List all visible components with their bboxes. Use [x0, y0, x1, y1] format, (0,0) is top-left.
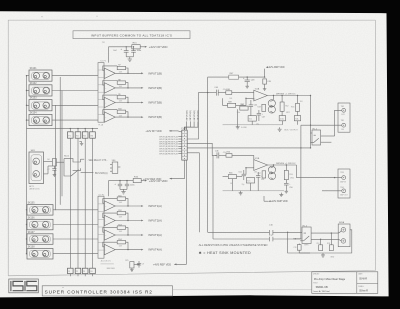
label INPUT2(A) — [141, 220, 143, 222]
svg-text:05-Iss-R: 05-Iss-R — [359, 291, 368, 293]
wire PL1B pin stub 1 — [178, 136, 182, 138]
wire long vertical C — [55, 105, 57, 210]
svg-text:C18: C18 — [316, 243, 319, 245]
component R24 (bottom row) — [90, 268, 96, 273]
wire R24 bottom stub — [92, 274, 94, 277]
svg-text:+: + — [105, 117, 106, 119]
svg-text:+4.5V REF VDD: +4.5V REF VDD — [143, 178, 161, 181]
resistor R48 (bias pair) — [262, 104, 266, 111]
terminal TB1 — [342, 123, 346, 127]
label INPUT3(B) — [141, 102, 143, 104]
wire top distribution rail — [208, 76, 265, 78]
svg-text:+4V5 REF VDD: +4V5 REF VDD — [153, 262, 171, 266]
wire R21 bottom stub — [69, 274, 71, 277]
wire RL1 contact A — [321, 135, 335, 137]
ground (module B right) — [279, 193, 283, 197]
svg-text:INPUT4(B): INPUT4(B) — [148, 115, 162, 119]
svg-text:R4: R4 — [47, 159, 49, 161]
wire R23 bottom stub — [84, 274, 86, 277]
svg-text:IC5B: IC5B — [255, 158, 260, 160]
wire R1 top stub — [77, 129, 79, 132]
svg-text:R10: R10 — [118, 109, 121, 111]
title strip — [42, 286, 172, 296]
wire output lower 2 — [115, 220, 141, 222]
svg-text:1K0: 1K0 — [300, 101, 303, 103]
socket SK107 L — [32, 236, 38, 242]
transistor Q2 — [268, 106, 275, 113]
wire feedback loop 2 — [103, 81, 128, 88]
socket SK102 R — [43, 87, 49, 93]
socket SK101 L — [33, 73, 39, 79]
svg-text:100K: 100K — [119, 246, 123, 248]
capacitor C49 — [263, 79, 267, 84]
svg-text:IC5A: IC5A — [255, 87, 260, 90]
wire lower cap join — [120, 188, 127, 190]
op-amp IC4a — [104, 201, 115, 211]
wire output lower 3 — [115, 234, 141, 236]
wire +22V rail (lower buffers) — [109, 180, 134, 182]
socket SK103 R — [43, 102, 49, 108]
svg-text:100K: 100K — [119, 202, 123, 204]
resistor R54 — [226, 154, 232, 158]
svg-text:E-GND: E-GND — [241, 127, 247, 129]
svg-text:C44: C44 — [214, 87, 217, 89]
wire SK103 to buffer bus — [52, 104, 98, 106]
connector SK9A — [338, 224, 350, 247]
wire long vertical A — [59, 77, 61, 205]
component IC5 bias — [248, 116, 256, 121]
svg-text:INPUT1(B): INPUT1(B) — [186, 110, 188, 120]
socket SK9A pin1 — [341, 228, 346, 233]
component R2 (mid row) — [82, 132, 88, 138]
svg-text:R13: R13 — [118, 224, 121, 226]
wire TB4 feed — [322, 190, 342, 192]
wire net 4 drop to PL1B — [185, 121, 198, 130]
svg-text:R58: R58 — [327, 243, 330, 245]
svg-text:22p: 22p — [253, 99, 256, 101]
fuse FS1 — [279, 116, 285, 121]
svg-text:23: 23 — [83, 271, 85, 273]
svg-text:DRN BY: DRN BY — [313, 274, 320, 276]
ground (mid) — [79, 141, 81, 143]
wire R52 top — [281, 96, 283, 103]
capacitor C48 — [246, 77, 248, 80]
svg-text:R49: R49 — [228, 101, 231, 103]
junction RL2 feed — [295, 238, 296, 239]
op-amp IC5A — [254, 90, 267, 101]
wire rail drop to bus — [108, 47, 110, 63]
wire relay control drop RL1 — [310, 96, 312, 148]
socket SK108 R — [43, 251, 49, 257]
svg-text:+22V AMP VDD: +22V AMP VDD — [271, 200, 288, 203]
wire SK104 to buffer bus — [52, 119, 98, 121]
svg-text:INPUT3(B): INPUT3(B) — [148, 101, 162, 105]
capacitor C44 — [215, 90, 217, 96]
component R3 (mid row) — [90, 132, 96, 138]
wire PL1B relay control — [187, 147, 310, 149]
label INPUT3(A) — [141, 234, 143, 236]
svg-text:21: 21 — [68, 271, 70, 273]
page border frame — [8, 20, 375, 276]
svg-text:MATCHED: MATCHED — [107, 267, 116, 270]
wire ref rail — [134, 263, 139, 265]
fuse FS2 — [294, 116, 300, 121]
socket SK104 L — [33, 117, 39, 123]
transistor Q3 — [268, 166, 275, 173]
svg-text:05-W-R: 05-W-R — [359, 279, 367, 281]
svg-text:INPUT3(B): INPUT3(B) — [194, 110, 196, 120]
transistor Q1 — [268, 100, 275, 107]
svg-text:IC1 P2: IC1 P2 — [100, 61, 106, 63]
svg-text:R56: R56 — [289, 174, 292, 176]
wire horizontal bus y128.6 — [27, 128, 99, 130]
wire output 1 — [115, 72, 141, 74]
ground (jack) — [53, 173, 57, 177]
svg-text:→ SEE RELAY CTS ←: → SEE RELAY CTS ← — [86, 159, 110, 162]
svg-text:+: + — [105, 88, 106, 90]
wire feedback loop lower 2 — [103, 213, 128, 220]
capacitor C50 — [285, 180, 287, 184]
resistor network RN1 — [112, 162, 118, 173]
svg-text:R54: R54 — [227, 152, 230, 154]
capacitor C52 — [257, 172, 259, 176]
wire IC5B input jog — [253, 155, 255, 159]
wire lower bias drops — [232, 179, 258, 191]
wire RL2 contact B — [311, 238, 338, 240]
terminal block TB3/TB4 — [338, 169, 350, 198]
connector SK108 — [27, 249, 53, 260]
terminal TB4 — [342, 189, 346, 193]
ground (C50) — [285, 189, 289, 193]
capacitor C18 — [319, 245, 323, 251]
label +22V AMP VDDA — [268, 200, 270, 202]
wire R22 bottom stub — [77, 274, 79, 277]
ground (output) — [321, 253, 325, 257]
resistor R46 — [226, 91, 232, 95]
svg-text:INPUT4(A): INPUT4(A) — [148, 248, 162, 252]
wire R2 vertical run — [84, 138, 86, 268]
socket SK104 R — [43, 117, 49, 123]
wire R49 net — [223, 98, 246, 105]
wire output lower 1 — [115, 205, 141, 207]
wire out line to TB1 — [301, 124, 342, 126]
svg-text:INPUT1(B): INPUT1(B) — [148, 71, 162, 75]
svg-text:Issue A / DB Total: Issue A / DB Total — [313, 290, 330, 293]
wire C49 drop — [264, 84, 266, 87]
svg-text:WPR: WPR — [304, 244, 309, 246]
wire +22V rail (buffers top) — [109, 46, 132, 48]
wire IC5A output — [267, 95, 310, 97]
svg-text:R52: R52 — [285, 105, 288, 107]
svg-text:ALL 10K 1%: ALL 10K 1% — [101, 259, 111, 262]
wire R52-FS1 — [281, 111, 283, 115]
wire R3 top stub — [92, 129, 94, 132]
wire SK104 left pin — [27, 119, 30, 121]
svg-text:100K: 100K — [119, 217, 123, 219]
wire net 2 drop to PL1B — [185, 121, 191, 130]
svg-text:R48: R48 — [257, 107, 260, 109]
resistor R8 (feedback) — [117, 81, 125, 84]
label INPUT4(A) — [141, 249, 143, 251]
svg-text:IC3 P2: IC3 P2 — [98, 194, 104, 196]
label INPUT1(A) — [141, 205, 143, 207]
svg-text:C50: C50 — [289, 187, 292, 189]
svg-text:TB3: TB3 — [340, 172, 343, 174]
wire module left vertical — [207, 77, 209, 232]
connector SK107 — [27, 234, 53, 245]
wire PL1B pin stub 4 — [178, 143, 182, 145]
wire PL1B to bottom bus line — [187, 153, 199, 233]
svg-text:+22V AMP VDD: +22V AMP VDD — [267, 66, 284, 69]
resistor R56 — [284, 170, 288, 179]
svg-text:INPUT2(B): INPUT2(B) — [148, 86, 162, 90]
svg-text:GND: GND — [330, 257, 335, 259]
wire SK103 left pin — [27, 104, 30, 106]
resistor R4 (jack) — [52, 159, 56, 166]
ground (module A left) — [236, 125, 240, 129]
wire XLR feed 2 — [338, 239, 341, 241]
wire R53 stem — [297, 96, 299, 104]
resistor R49 — [228, 103, 236, 107]
op-amp IC5B — [254, 160, 268, 171]
svg-text:BUS / OUTPUT: BUS / OUTPUT — [284, 130, 298, 132]
svg-text:R46: R46 — [226, 89, 229, 91]
svg-text:C9: C9 — [142, 263, 144, 265]
wire PL1B lower drop — [174, 160, 186, 264]
connector PL1A bus — [98, 63, 104, 123]
wire C18 stem — [320, 239, 322, 245]
svg-text:INPUT3(A): INPUT3(A) — [148, 233, 162, 237]
svg-text:INPUT4(B) FROM PL2B: INPUT4(B) FROM PL2B — [159, 153, 178, 155]
svg-text:+: + — [105, 206, 106, 208]
wire bus line 1 — [208, 231, 270, 233]
relay RL1 — [312, 130, 321, 145]
wire F1 top stub — [69, 129, 71, 132]
wire cap join — [126, 56, 133, 58]
connector SK9 (mon out) — [29, 152, 44, 184]
wire SK9 out A — [44, 160, 53, 162]
svg-text:R57: R57 — [258, 173, 261, 175]
svg-text:C19: C19 — [293, 247, 296, 249]
connector SK103 — [29, 100, 52, 111]
svg-text:SCALE: SCALE — [358, 285, 364, 288]
scan noise overlay — [0, 0, 1, 1]
svg-text:+: + — [105, 235, 106, 237]
wire XLR feed 1 — [338, 231, 341, 233]
wire F1 vertical run — [69, 138, 71, 268]
svg-text:DRIVES +/- 18V DC: DRIVES +/- 18V DC — [276, 93, 296, 95]
wire RL2 contact A — [311, 232, 338, 234]
svg-text:+: + — [105, 250, 106, 252]
connector SK102 — [29, 85, 52, 96]
svg-text:R7: R7 — [118, 65, 120, 67]
connector SK104 — [29, 114, 52, 125]
svg-text:47u: 47u — [256, 124, 259, 126]
ground (ref) — [130, 268, 134, 272]
svg-text:+: + — [105, 221, 106, 223]
capacitor C3 — [119, 181, 121, 185]
capacitor C16 — [268, 230, 270, 235]
wire IC5B inv — [246, 167, 254, 169]
svg-text:R53: R53 — [291, 106, 294, 108]
wire feedback loop lower 4 — [103, 242, 128, 249]
wire SL01 contact B — [81, 171, 94, 173]
svg-text:100n: 100n — [130, 185, 134, 187]
socket SK101 R — [43, 73, 49, 79]
wire SL01 contact A — [81, 158, 85, 160]
logo letter S1 — [13, 281, 23, 290]
svg-text:+: + — [105, 103, 106, 105]
capacitor C47 — [258, 110, 260, 113]
svg-text:100K: 100K — [119, 231, 123, 233]
wire +4V5 from PL1B — [170, 160, 185, 179]
svg-text:C51: C51 — [238, 171, 241, 173]
junction rail — [126, 46, 127, 47]
svg-text:+22V OP VDD: +22V OP VDD — [149, 45, 168, 49]
wire PL1B pin stub 8 — [178, 153, 182, 155]
wire bus drop — [288, 232, 319, 253]
wire lower rail drop — [108, 181, 110, 197]
svg-text:R25: R25 — [125, 260, 128, 262]
wire R53-FS2 — [297, 111, 299, 115]
svg-text:C47: C47 — [262, 117, 265, 119]
capacitor C1 — [125, 47, 127, 51]
socket SK103 L — [33, 102, 39, 108]
socket SK106 L — [32, 221, 38, 227]
svg-text:ALL RESISTORS 0.25W UNLESS OTH: ALL RESISTORS 0.25W UNLESS OTHERWISE STA… — [199, 243, 268, 247]
label +22V OP VDD (top) — [145, 46, 147, 48]
svg-text:C49: C49 — [267, 81, 270, 83]
svg-text:SUPER CONTROLLER 300384: SUPER CONTROLLER 300384 ISS R2 — [45, 290, 153, 295]
socket SK107 R — [43, 236, 49, 242]
wire SK101 to buffer bus — [52, 75, 98, 77]
wire PL1B pin stub 5 — [178, 145, 182, 147]
wire driver stem lower — [273, 165, 275, 166]
connector PL1B — [182, 130, 187, 160]
wire output 3 — [115, 102, 141, 104]
wire RL1 contact B — [321, 141, 332, 143]
wire output 4 — [115, 116, 141, 118]
svg-text:R55: R55 — [229, 173, 232, 175]
svg-text:4K7: 4K7 — [241, 104, 244, 106]
wire R2 top stub — [84, 129, 86, 132]
wire SK106 left pin — [26, 224, 29, 226]
wire amp input (upper) — [208, 92, 215, 94]
svg-text:470n: 470n — [223, 152, 227, 154]
connector PL1C bus — [98, 196, 104, 258]
svg-text:0R22: 0R22 — [286, 112, 290, 114]
socket SK105 R — [43, 207, 49, 213]
wire relay control drop RL2 — [300, 148, 302, 239]
wire PL1B to upper amp — [187, 93, 207, 139]
resistor R50 — [240, 106, 248, 110]
svg-text:INPUT BUFFERS COMMON TO ALL TD: INPUT BUFFERS COMMON TO ALL TDA7318 IC'S — [91, 33, 172, 37]
resistor R15 — [132, 45, 140, 49]
capacitor C51 — [243, 170, 245, 174]
capacitor C46 — [216, 152, 218, 158]
socket SK9 A — [33, 158, 40, 165]
faint scan line — [173, 289, 312, 291]
svg-text:22: 22 — [76, 271, 78, 273]
op-amp IC4c — [104, 230, 115, 240]
capacitor C19 (relay) — [297, 245, 301, 251]
svg-text:R8: R8 — [118, 79, 120, 81]
socket SK106 R — [43, 221, 49, 227]
svg-text:SM601.CB: SM601.CB — [316, 286, 328, 289]
wire feedback loop lower 3 — [103, 228, 128, 235]
connector SK105 — [27, 205, 53, 216]
wire feedback loop 3 — [103, 95, 128, 102]
wire SK107 left pin — [26, 238, 29, 240]
wire bias drops — [238, 109, 253, 125]
wire output lower 4 — [115, 249, 141, 251]
ground (module B left) — [239, 191, 243, 195]
svg-text:TB1: TB1 — [341, 120, 344, 122]
svg-text:INPUT1(A): INPUT1(A) — [148, 204, 162, 208]
capacitor C7 (jack) — [53, 166, 55, 169]
wire SK101 left pin — [27, 75, 30, 77]
terminal TB2 — [342, 108, 346, 112]
ground (lower buffer supply) — [121, 189, 125, 194]
ground (C49) — [263, 87, 267, 91]
component IC5 bias lower — [246, 178, 254, 183]
wire +22V amp entry — [264, 69, 266, 78]
terminal block TB2/TB1 — [338, 103, 350, 132]
resistor R13 (feedback) — [117, 226, 125, 229]
connector SK101 — [29, 70, 52, 81]
svg-text:R9: R9 — [118, 94, 120, 96]
svg-text:C48: C48 — [251, 79, 254, 81]
svg-text:INPUT2(B): INPUT2(B) — [190, 110, 192, 120]
svg-text:(MON OUT): (MON OUT) — [29, 189, 40, 191]
resistor R9 (feedback) — [117, 96, 125, 99]
svg-text:C7: C7 — [47, 169, 49, 171]
resistor R16 — [133, 179, 141, 183]
logo letter I1 — [10, 281, 12, 291]
wire lower 0V rail — [223, 190, 284, 192]
wire SK102 to buffer bus — [52, 90, 98, 92]
wire PL1B pin stub 6 — [178, 148, 182, 150]
resistor R57 (bias pair) — [262, 171, 266, 178]
wire jack to switch — [56, 161, 64, 163]
svg-text:R11: R11 — [118, 195, 121, 197]
wire PL1B pin stub 2 — [178, 138, 182, 140]
svg-text:100n: 100n — [237, 112, 241, 114]
wire SK106 to bus — [53, 224, 98, 226]
op-amp IC2a — [104, 68, 115, 78]
resistor R58 — [329, 245, 333, 251]
label INPUT4(B) — [141, 116, 143, 118]
resistor R12 (feedback) — [117, 211, 125, 214]
svg-text:SL01: SL01 — [64, 155, 70, 157]
wire R3 vertical run — [92, 138, 94, 268]
svg-text:+12V MY VDD: +12V MY VDD — [145, 130, 161, 133]
wire SK108 to bus — [53, 253, 98, 255]
svg-text:INPUT2(A): INPUT2(A) — [148, 219, 162, 223]
wire SK108 left pin — [26, 253, 29, 255]
capacitor C2 — [132, 47, 134, 51]
logo letter I2 — [24, 281, 26, 291]
op-amp IC2d — [104, 112, 115, 122]
wire amp out to TB3 — [297, 165, 342, 178]
wire IC5B output — [268, 164, 297, 166]
wire R56 stem — [285, 165, 287, 170]
socket SK9A pin2 — [341, 239, 346, 244]
socket SK9 B — [33, 171, 40, 178]
capacitor C4 — [126, 181, 128, 185]
wire long vertical B — [61, 91, 63, 197]
label +22V OP VDD (lower) — [145, 180, 147, 182]
